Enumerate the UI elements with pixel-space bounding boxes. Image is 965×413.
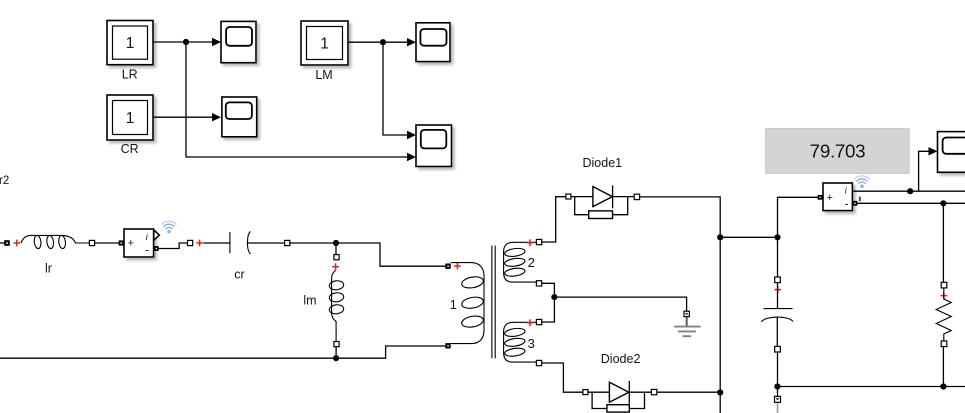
wire i junction up to Scope4 — [919, 151, 929, 191]
wire CR to Scope1 — [153, 116, 213, 118]
wire lm branch down — [335, 243, 337, 255]
port winding1 + (solid) — [445, 264, 450, 269]
port winding2 - — [536, 281, 541, 286]
output port arrow (unconnected i) of U1 — [154, 230, 160, 240]
polarity + (winding2) — [527, 239, 534, 246]
wire Diode2 to output bottom — [657, 391, 720, 393]
port - of U1 — [154, 246, 159, 251]
wire output top rail to cap node — [720, 236, 777, 238]
wire LR junction to Scope3 input 2 — [186, 42, 407, 157]
svg-text:Diode1: Diode1 — [582, 156, 622, 170]
resistor R load — [936, 288, 951, 341]
port resistor top — [941, 282, 947, 288]
svg-text:3: 3 — [528, 336, 535, 351]
inductor lr — [21, 235, 90, 249]
node square — [188, 240, 193, 245]
arrowhead into Scope1 — [212, 113, 221, 121]
junction on LM wire — [380, 39, 386, 45]
transformer winding 3 (secondary bottom) — [504, 322, 537, 362]
junction bottom rail right — [940, 383, 946, 389]
node square (lm bottom) — [334, 342, 339, 347]
svg-text:Diode2: Diode2 — [601, 352, 641, 366]
wire cr to node — [247, 242, 285, 244]
scope Scope (LR) — [221, 21, 256, 62]
port + of current measurement U1 — [119, 240, 124, 245]
junction output top — [717, 234, 723, 240]
port Diode1 cathode — [634, 194, 639, 199]
bottom rail wire to winding 1 - — [0, 346, 445, 358]
svg-text:1: 1 — [320, 36, 329, 53]
node square (cr right) — [285, 240, 290, 245]
constant LM — [301, 21, 348, 65]
polarity + (winding1) — [454, 263, 461, 270]
port (input) at left edge — [4, 240, 10, 246]
wire minus rail to right edge — [857, 202, 965, 204]
scope Scope3 (2 inputs) — [416, 125, 452, 167]
inductor lm — [329, 270, 344, 341]
port Diode2 cathode — [651, 389, 656, 394]
scope Scope4 (right edge) — [938, 132, 965, 173]
transformer winding 2 (secondary top) — [504, 242, 537, 282]
node square (lr right) — [89, 240, 94, 245]
junction center tap — [551, 294, 557, 300]
polarity + (lm) — [332, 263, 339, 270]
wireless signal icon U2 — [855, 176, 869, 188]
display Display (79.703) — [766, 129, 910, 174]
wire lm bottom to rail — [335, 347, 337, 359]
junction at lm bottom — [333, 355, 339, 361]
wire junction to transformer winding 1 + — [336, 243, 445, 266]
svg-text:lr: lr — [45, 262, 52, 276]
svg-text:+: + — [128, 237, 134, 249]
svg-text:LM: LM — [315, 68, 332, 82]
junction resistor top node — [940, 200, 946, 206]
junction output bottom (diode2 side) — [717, 389, 723, 395]
polarity + (lr left) — [13, 240, 20, 247]
polarity + (cr left) — [196, 240, 203, 247]
wire stub to block below edge — [777, 403, 779, 413]
diode D1 — [571, 185, 634, 218]
junction on i wire — [907, 188, 913, 194]
wire center tap to ground — [554, 297, 686, 311]
arrowhead into Scope — [212, 38, 221, 46]
port Diode1 anode — [566, 194, 571, 199]
junction at lm top — [333, 240, 339, 246]
wireless signal icon U1 — [162, 221, 176, 233]
wire LM to Scope2 — [348, 41, 407, 43]
transformer winding 1 (primary) — [451, 263, 484, 344]
capacitor cr — [230, 231, 251, 253]
svg-text:79.703: 79.703 — [810, 140, 866, 161]
port - of U2 — [853, 201, 858, 206]
arrowhead into Scope4 — [929, 147, 938, 155]
port capacitor bottom — [775, 346, 781, 352]
port capacitor top — [775, 277, 781, 283]
ground symbol — [674, 317, 701, 336]
wire node to lm junction — [290, 242, 336, 244]
svg-text:CR: CR — [121, 142, 139, 156]
wire Diode1 to output top rail — [640, 197, 721, 413]
wire i output to right edge — [852, 190, 965, 192]
wire LM junction to Scope3 input 1 — [383, 42, 407, 135]
svg-text:2: 2 — [528, 255, 535, 270]
transformer core — [492, 246, 495, 359]
bottom output rail — [777, 386, 965, 388]
wire winding3 - to Diode2 — [542, 363, 583, 392]
wire cap node up to current measurement + — [778, 197, 818, 237]
arrowhead Scope3 input 1 — [407, 131, 416, 139]
arrowhead into Scope2 — [407, 38, 416, 46]
svg-text:lm: lm — [303, 294, 316, 308]
svg-text:1: 1 — [450, 297, 457, 312]
scope Scope2 (LM) — [416, 23, 450, 62]
arrowhead Scope3 input 2 — [407, 153, 416, 161]
svg-text:cr: cr — [234, 268, 244, 282]
wire winding2 + to Diode1 — [542, 197, 566, 242]
wire LR to Scope — [153, 41, 213, 43]
capacitor C out — [761, 309, 793, 347]
junction cap top node — [774, 234, 780, 240]
port voltage measurement (clipped below) — [775, 396, 781, 402]
port winding1 - (solid) — [445, 343, 450, 348]
port Diode2 anode — [583, 390, 588, 395]
junction on LR wire — [183, 39, 189, 45]
junction bottom rail left — [774, 383, 780, 389]
current measurement U2 — [823, 183, 852, 211]
svg-text:-: - — [145, 244, 149, 256]
svg-text:1: 1 — [126, 35, 135, 52]
polarity + (resistor) — [940, 292, 947, 299]
constant LR — [107, 21, 153, 65]
wire to capacitor cr — [204, 242, 230, 244]
svg-text:1: 1 — [126, 110, 135, 127]
svg-text:LR: LR — [122, 68, 138, 82]
wire down to resistor — [942, 203, 944, 282]
wire cap node down to capacitor — [777, 237, 779, 277]
polarity + (capacitor) — [774, 286, 781, 293]
constant CR — [107, 95, 153, 140]
current measurement U1 — [124, 229, 154, 257]
port + of current measurement U2 — [818, 195, 823, 200]
wire to cap plate — [777, 283, 779, 309]
svg-text:r2: r2 — [0, 175, 9, 187]
port winding2 + — [536, 239, 541, 244]
port resistor bottom — [941, 341, 947, 347]
wire lr to current measurement — [95, 242, 119, 244]
svg-text:-: - — [845, 199, 849, 211]
polarity + (winding3) — [527, 319, 534, 326]
node square (lm top) — [334, 255, 339, 260]
diode D2 — [588, 381, 651, 412]
wire resistor to bottom rail — [942, 347, 944, 387]
wire center tap winding2- to winding3+ — [542, 283, 555, 322]
port winding3 - — [536, 360, 541, 365]
wire U1 minus to node — [159, 243, 188, 249]
wire capacitor to bottom rail — [777, 352, 779, 396]
signal tick — [859, 197, 861, 202]
ground port — [684, 311, 689, 316]
scope Scope1 (CR) — [222, 97, 257, 137]
wire left edge stub — [0, 242, 5, 244]
svg-text:+: + — [827, 192, 833, 204]
port winding3 + — [536, 319, 541, 324]
